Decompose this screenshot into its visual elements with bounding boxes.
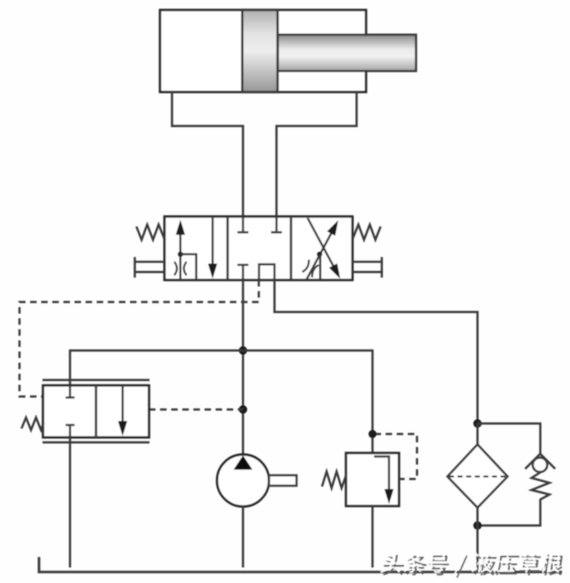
pump shaft [269, 475, 297, 485]
wire check valve branch top [478, 424, 541, 455]
wire T valve to filter [275, 280, 478, 424]
valve left pilot [135, 257, 165, 278]
valve right spring [353, 225, 381, 240]
relief valve pilot dashed [375, 434, 418, 479]
watermark shadow [382, 555, 564, 578]
valve left position: branch to throttle [180, 254, 196, 280]
check valve seat [525, 454, 555, 469]
wire check valve bottom [478, 499, 541, 526]
unloading valve blocked ports [66, 385, 75, 437]
junction dot pilot tap [239, 405, 247, 413]
relief valve flow arrow [374, 457, 394, 505]
unloading valve body [43, 385, 149, 437]
valve right position: throttle orifice [302, 260, 318, 278]
relief valve body [346, 453, 399, 506]
valve right position: arrow top-left to bottom-right [308, 218, 341, 279]
check valve spring [532, 472, 550, 500]
valve left spring [136, 225, 164, 240]
valve center: tank bridge [259, 264, 275, 280]
wire relief to tank [371, 506, 373, 568]
filter diamond [448, 445, 508, 508]
wire pilot dashed unloading valve to P [149, 408, 243, 410]
wire cylinder port B [277, 92, 357, 217]
wire unloading valve drain [69, 437, 71, 567]
relief valve spring [322, 472, 346, 489]
unloading valve top plate [43, 379, 150, 381]
pump circle [217, 455, 269, 507]
unloading valve bottom plate [43, 441, 150, 443]
wire pilot dashed valve to unloading valve [20, 280, 259, 397]
pump triangle [234, 456, 253, 470]
valve left position: up arrow [176, 220, 185, 280]
cylinder body [160, 10, 366, 92]
wire pump suction [242, 507, 244, 568]
valve left position: junction dot [178, 252, 183, 257]
watermark text [380, 552, 562, 575]
wire P pump to valve [242, 280, 244, 455]
tank return line [39, 557, 562, 572]
valve right pilot [353, 257, 382, 278]
cylinder rod [278, 35, 416, 71]
unloading valve flow arrow [118, 385, 127, 436]
valve right position: junction dot [317, 252, 322, 281]
junction dot filter top [473, 419, 481, 427]
unloading valve spring [22, 418, 44, 431]
wire branch unloading valve / relief valve [70, 351, 373, 454]
wire cylinder port A [172, 92, 243, 217]
valve center: blocked port P [237, 265, 248, 280]
check valve ball [533, 458, 547, 472]
junction dot relief pilot [369, 430, 377, 438]
valve center: blocked port B [271, 217, 282, 233]
valve 4/3 directional body [165, 217, 353, 281]
junction dot filter bottom [473, 521, 481, 529]
valve left position: throttle orifice [174, 262, 186, 275]
wire filter bottom [476, 508, 478, 568]
wire filter top [476, 424, 478, 445]
valve right position: arrow bottom-left to top-right [306, 220, 338, 280]
valve left position: down arrow [208, 217, 217, 279]
cylinder piston [242, 10, 277, 92]
junction dot P branch [239, 346, 247, 354]
valve center: blocked port A [237, 217, 248, 233]
